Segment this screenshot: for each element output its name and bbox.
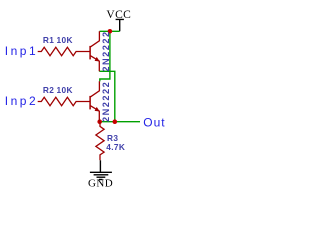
Q1 emitter arrow [95, 57, 100, 62]
resistor R3 [96, 122, 104, 161]
junction Out node right [113, 119, 118, 124]
svg-text:2N2222: 2N2222 [101, 30, 111, 71]
svg-text:10K: 10K [57, 35, 73, 45]
wire W1 VCC junction down to Q2 collector [100, 31, 110, 81]
resistor R1 [38, 47, 90, 55]
svg-text:Inp1: Inp1 [5, 44, 38, 58]
svg-text:4.7K: 4.7K [106, 142, 125, 152]
svg-text:10K: 10K [57, 85, 73, 95]
transistor Q2 [90, 81, 99, 121]
power symbol VCC [116, 19, 124, 31]
svg-text:VCC: VCC [106, 9, 131, 21]
svg-text:Out: Out [143, 116, 165, 130]
ground symbol [90, 160, 112, 179]
transistor Q1 [90, 31, 99, 71]
svg-text:R1: R1 [43, 35, 54, 45]
wire W2 Q1 emitter right and down to Out node [99, 71, 115, 121]
svg-text:GND: GND [88, 178, 113, 190]
svg-text:Inp2: Inp2 [5, 94, 38, 108]
svg-text:2N2222: 2N2222 [101, 81, 111, 122]
junction Out node left [97, 119, 102, 124]
junction VCC node [108, 29, 113, 34]
wire VCC horizontal to Q1 collector [100, 30, 120, 32]
Q2 emitter arrow [95, 107, 100, 112]
svg-text:R2: R2 [43, 85, 54, 95]
wire Out horizontal [100, 121, 140, 123]
resistor R2 [38, 97, 90, 105]
